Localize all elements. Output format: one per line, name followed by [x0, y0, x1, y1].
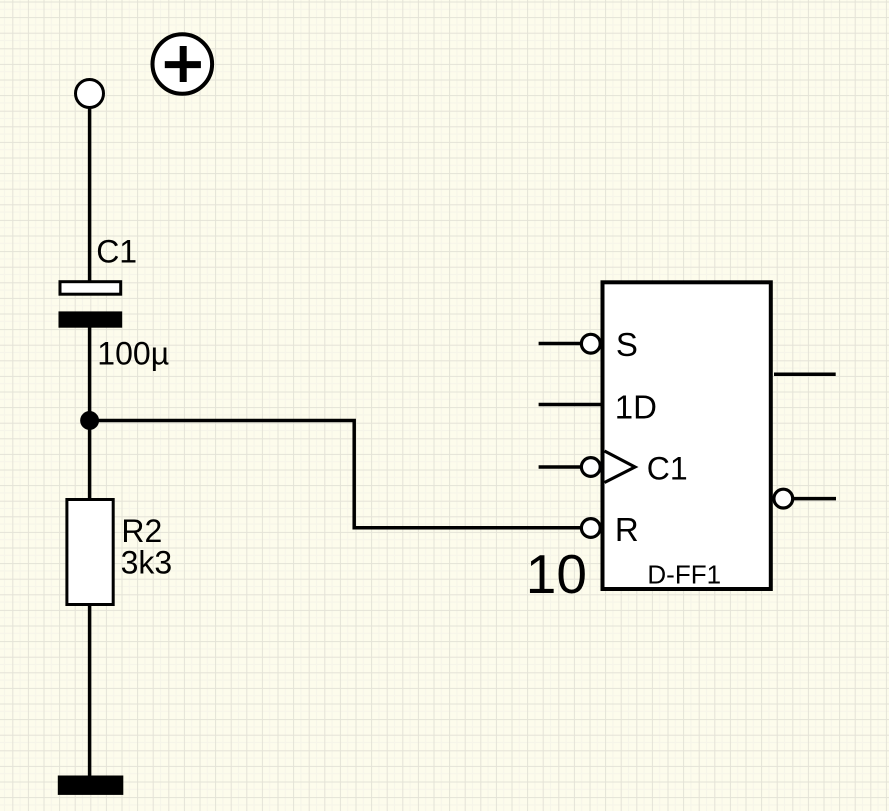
- svg-text:100µ: 100µ: [97, 335, 169, 371]
- svg-text:S: S: [616, 326, 638, 363]
- svg-text:D-FF1: D-FF1: [647, 560, 721, 590]
- svg-text:10: 10: [526, 543, 587, 605]
- svg-text:3k3: 3k3: [121, 545, 173, 581]
- svg-text:R2: R2: [121, 513, 162, 549]
- svg-text:C1: C1: [647, 450, 688, 486]
- svg-text:1D: 1D: [615, 388, 657, 425]
- svg-text:R: R: [615, 511, 639, 548]
- svg-text:C1: C1: [96, 234, 137, 270]
